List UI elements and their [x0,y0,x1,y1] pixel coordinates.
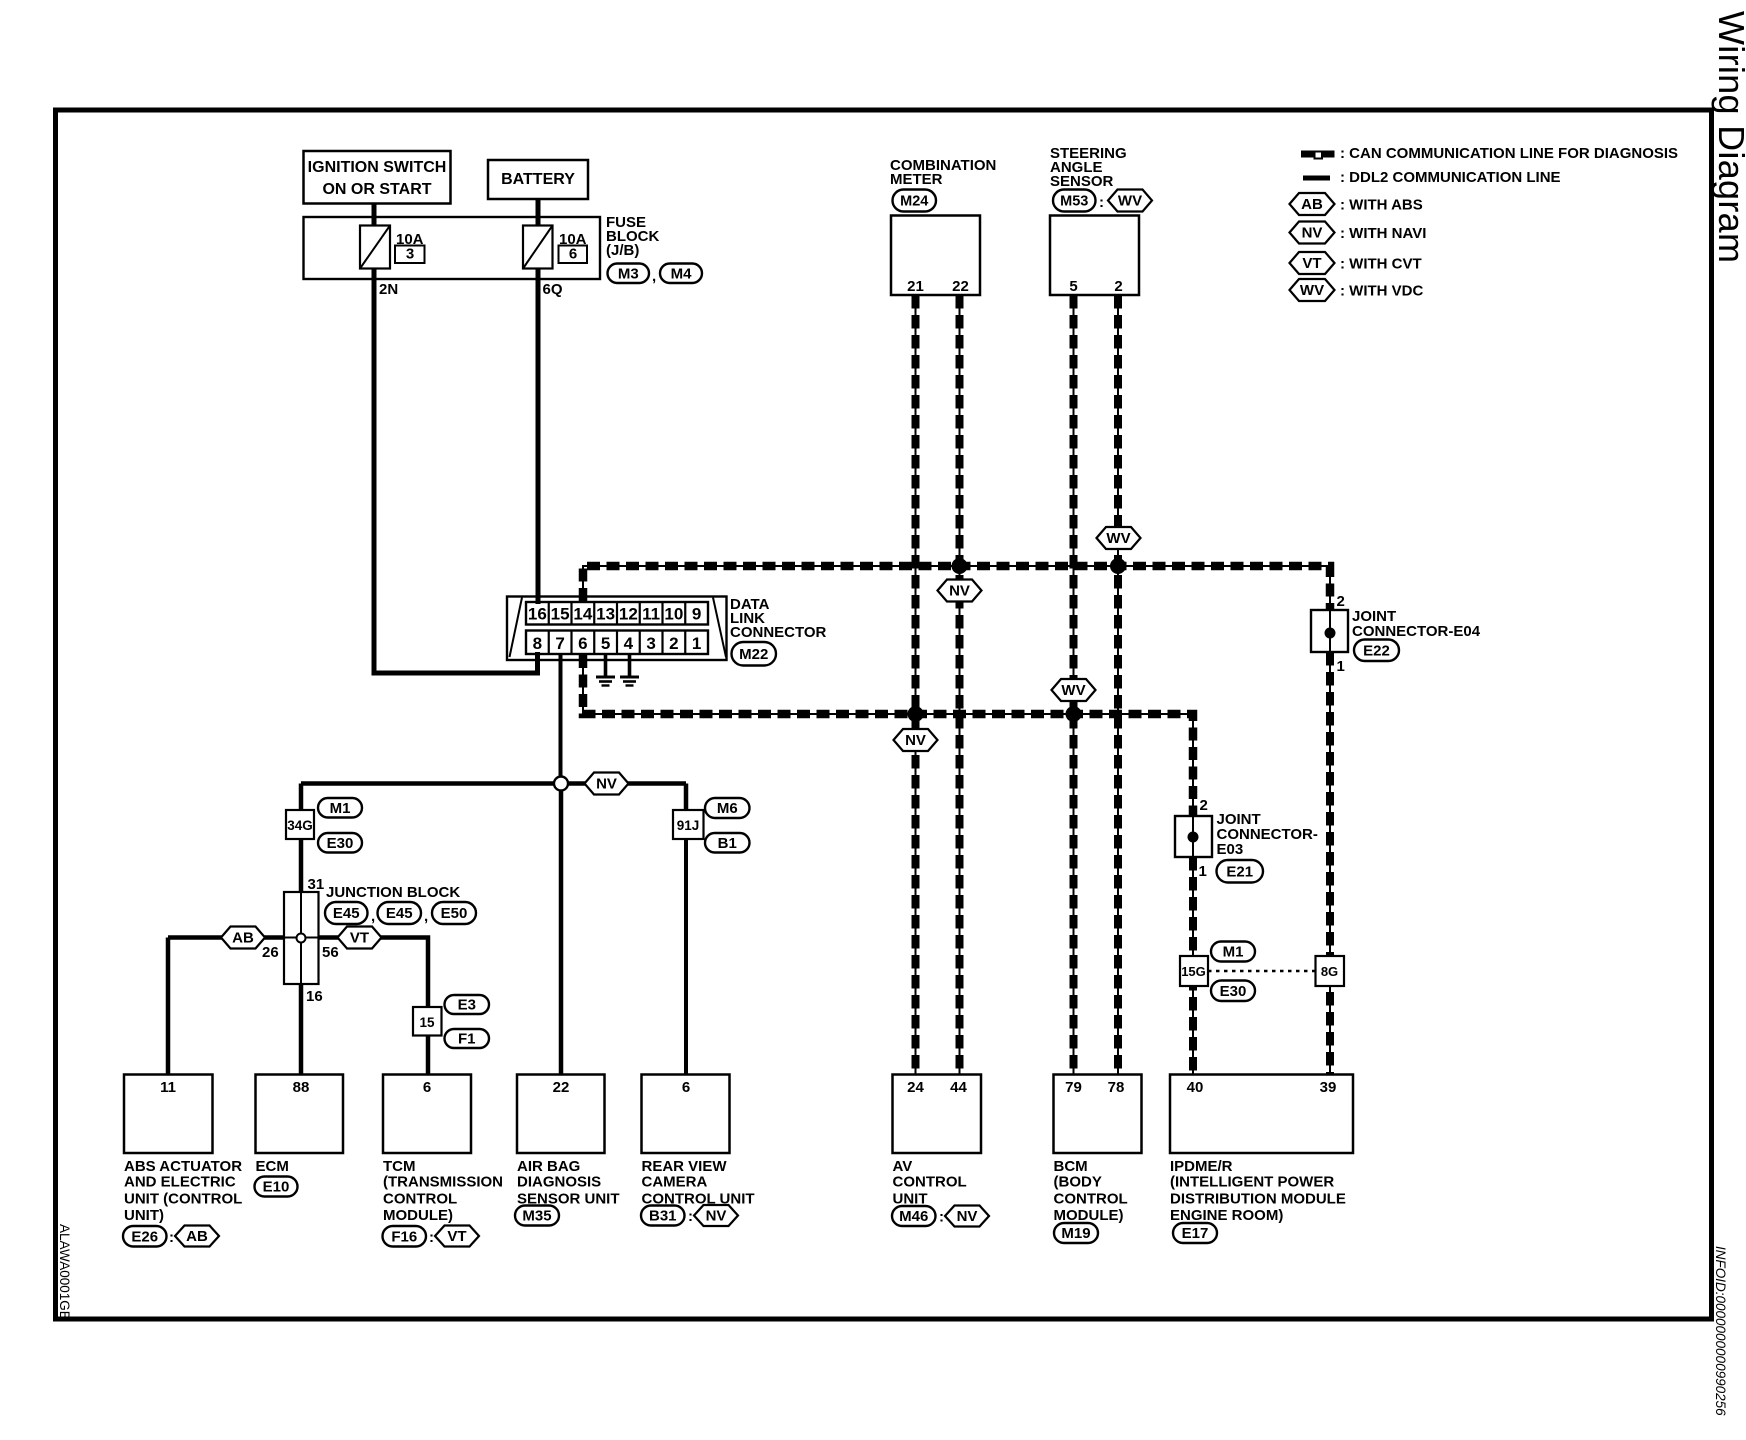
svg-text:WV: WV [1118,193,1142,210]
svg-text:31: 31 [308,876,325,893]
box ABS ACTUATOR [124,1075,213,1154]
svg-text:E45: E45 [333,905,360,922]
CAN wire E03 to 15G to IPDME pin40 [1192,857,1194,1074]
svg-text:CONTROL: CONTROL [1054,1190,1128,1207]
svg-text:40: 40 [1187,1079,1204,1096]
label pin 2 (E04) [1337,593,1345,610]
connector oval E26 [123,1226,167,1247]
wire ignition to fuse block [372,204,377,227]
connector oval E30 (15G) [1211,981,1255,1002]
value box 6 [559,246,588,264]
label ECM [256,1158,289,1175]
comma [652,268,656,285]
box 15G [1180,956,1208,986]
hexagon NV right of node [585,773,629,795]
hexagon VT [338,927,382,949]
pin 39 [1320,1079,1337,1096]
svg-text:M22: M22 [739,646,768,663]
CAN wire sensor pin5 to BCM pin79 [1073,295,1075,1074]
connector oval E50 [432,902,476,924]
svg-text:26: 26 [262,944,279,961]
connector oval M22 [732,642,777,666]
svg-text:WV: WV [1300,282,1324,299]
label IPDME/R [1170,1158,1346,1224]
pin 78 [1108,1079,1125,1096]
svg-text:E03: E03 [1217,841,1244,858]
box REAR VIEW CAMERA [642,1075,730,1154]
svg-text:2: 2 [1337,593,1345,610]
legend text WITH NAVI [1340,225,1426,242]
CAN wire E04 to 8G to IPDME pin39 [1329,652,1331,1074]
legend hexagon VT [1290,252,1335,274]
svg-text:: WITH ABS: : WITH ABS [1340,197,1423,214]
page border frame [56,110,1712,1319]
svg-text:44: 44 [950,1079,967,1096]
svg-text:ABS ACTUATOR: ABS ACTUATOR [124,1158,242,1175]
legend DDL2 symbol [1303,176,1330,181]
connector oval F16 [383,1226,427,1247]
connector oval E3 [445,995,490,1014]
svg-text:4: 4 [624,634,634,653]
junction block crossing line [284,937,319,939]
pin 22 [952,278,969,295]
svg-text:6: 6 [423,1079,431,1096]
svg-text:,: , [424,908,428,925]
svg-text:6Q: 6Q [543,281,563,298]
junction dot bus2 x1073 [1066,706,1082,722]
box 15 [413,1007,442,1036]
connector oval E45 b [378,902,422,924]
svg-text:MODULE): MODULE) [383,1207,453,1224]
ground DLC pin5 [596,654,615,686]
legend text WITH VDC [1340,283,1423,300]
box STEERING ANGLE SENSOR [1050,216,1139,296]
svg-text:M53: M53 [1060,194,1088,210]
box 91J [673,810,704,839]
DDL2 wire DLC pin7 down to node [559,654,563,784]
hexagon VT (TCM) [435,1226,479,1247]
svg-text:MODULE): MODULE) [1054,1207,1124,1224]
svg-text:16: 16 [306,988,323,1005]
wire left down to ABS pin11 [166,938,171,1075]
wire node right down 91J [684,784,689,811]
CAN wire sensor pin2 to BCM pin78 [1117,295,1119,1074]
connector oval E10 [255,1177,298,1197]
wire 91J to REAR VIEW pin6 [684,839,688,1074]
svg-text:(INTELLIGENT POWER: (INTELLIGENT POWER [1170,1174,1334,1191]
svg-text:JUNCTION BLOCK: JUNCTION BLOCK [326,884,460,901]
connector oval E21 [1217,860,1264,883]
svg-text:AND ELECTRIC: AND ELECTRIC [124,1174,236,1191]
wire AB branch left [168,935,284,940]
connector oval M35 [515,1206,559,1226]
svg-text:REAR VIEW: REAR VIEW [642,1158,728,1175]
connector oval M46 [892,1206,936,1226]
svg-text:13: 13 [596,605,615,624]
box ECM [256,1075,344,1154]
colon [1099,194,1104,211]
DATA LINK CONNECTOR M22 [507,597,727,661]
svg-text:: WITH CVT: : WITH CVT [1340,256,1422,273]
svg-text:Wiring Diagram: Wiring Diagram [1711,11,1746,263]
svg-text:E45: E45 [386,905,413,922]
DDL2 wire node down to AIR BAG pin22 [559,784,564,1075]
label TCM [383,1158,503,1224]
svg-text:M24: M24 [900,194,928,210]
svg-text:88: 88 [293,1079,310,1096]
svg-text:11: 11 [642,605,660,624]
label DATA LINK CONNECTOR [730,596,827,641]
svg-text:M1: M1 [330,800,351,817]
svg-text:3: 3 [646,634,655,653]
svg-text:F1: F1 [458,1031,476,1048]
CAN wire meter pin22 to AV pin44 [959,295,961,1074]
svg-text:(TRANSMISSION: (TRANSMISSION [383,1174,503,1191]
label 6Q [543,281,563,298]
legend text WITH CVT [1340,256,1422,273]
label AIR BAG DIAGNOSIS SENSOR UNIT [517,1158,620,1207]
svg-text:(BODY: (BODY [1054,1174,1102,1191]
svg-text:56: 56 [322,944,339,961]
junction dot bus1 x959 [952,558,968,574]
label JOINT CONNECTOR-E03 [1217,811,1318,858]
hexagon WV sensor [1108,190,1152,212]
svg-text:NV: NV [957,1208,978,1225]
svg-text:ECM: ECM [256,1158,289,1175]
svg-text::: : [1099,194,1104,211]
svg-text:,: , [652,268,656,285]
svg-text:VT: VT [350,930,369,947]
svg-text:12: 12 [619,605,638,624]
connector oval M6 [705,798,750,818]
svg-text::: : [939,1209,944,1226]
colon [169,1229,174,1246]
pin 22 airbag [553,1079,570,1096]
svg-text:79: 79 [1065,1079,1082,1096]
hexagon AB [221,927,265,949]
joint connector E03 box [1175,816,1212,857]
svg-text:6: 6 [578,634,587,653]
svg-text:5: 5 [601,634,610,653]
label 26 [262,944,279,961]
connector oval E17 [1173,1223,1217,1243]
colon [688,1208,693,1225]
pin 24 [907,1079,924,1096]
label 10A fuse 3 [396,231,424,248]
label JOINT CONNECTOR-E04 [1352,608,1481,640]
hexagon WV above bus1 [1097,527,1141,549]
legend CAN line symbol [1301,151,1335,159]
junction block node circle [297,934,306,943]
junction dot bus2 x915 [908,706,924,722]
svg-text:DIAGNOSIS: DIAGNOSIS [517,1174,601,1191]
svg-text:22: 22 [952,278,969,295]
box BCM [1054,1075,1142,1154]
svg-text:INFOID:0000000000990256: INFOID:0000000000990256 [1713,1246,1728,1416]
label BCM [1054,1158,1128,1224]
svg-text:2: 2 [669,634,678,653]
connector oval M19 [1054,1223,1098,1243]
svg-text:TCM: TCM [383,1158,416,1175]
fuse F1 10A #3 [360,226,390,269]
svg-text:CAMERA: CAMERA [642,1174,708,1191]
label JUNCTION BLOCK [326,884,460,901]
vertical code INFOID [1713,1246,1728,1416]
wire battery to fuse block [536,199,541,226]
label 31 [308,876,325,893]
box COMBINATION METER [891,216,980,296]
connector oval B31 [641,1206,685,1226]
connector oval M4 [660,264,702,284]
svg-text:E21: E21 [1226,863,1253,880]
svg-text:VT: VT [1302,255,1321,272]
pin 2 [1114,278,1122,295]
label STEERING ANGLE SENSOR [1050,145,1127,190]
svg-text:21: 21 [907,278,924,295]
svg-text:F16: F16 [391,1228,417,1245]
svg-text::: : [688,1208,693,1225]
wire 34G to junction block [299,839,304,892]
legend hexagon NV [1290,222,1335,244]
svg-text:1: 1 [1199,863,1207,880]
svg-text:NV: NV [596,776,617,793]
svg-text:91J: 91J [677,818,700,833]
connector oval M1 (15G) [1211,942,1255,962]
label pin 1 (E04) [1337,658,1345,675]
svg-text:NV: NV [949,583,970,600]
svg-text:AV: AV [893,1158,913,1175]
legend hexagon WV [1290,279,1335,301]
svg-text:CONTROL: CONTROL [383,1190,457,1207]
svg-text:1: 1 [692,634,701,653]
svg-text:M35: M35 [522,1208,551,1225]
svg-text:15: 15 [419,1015,435,1030]
CAN bus 2 (DLC pin6 - joint connector E03) [583,655,1193,815]
svg-text:E50: E50 [441,905,468,922]
joint connector E04 box [1311,610,1348,652]
connector oval F1 [445,1029,490,1048]
pin 88 [293,1079,310,1096]
legend hexagon AB [1290,193,1335,215]
legend text DDL2 [1340,169,1561,186]
pin 11 [160,1079,176,1096]
svg-text:: WITH NAVI: : WITH NAVI [1340,225,1426,242]
svg-text:78: 78 [1108,1079,1125,1096]
svg-text:,: , [371,908,375,925]
svg-text:E30: E30 [327,835,354,852]
svg-text:AB: AB [232,930,254,947]
svg-text:SENSOR: SENSOR [1050,173,1114,190]
box IPDM E/R [1170,1075,1353,1154]
svg-text:9: 9 [692,605,701,624]
svg-text:6: 6 [569,246,577,263]
svg-text:8: 8 [533,634,542,653]
hexagon AB (ABS) [175,1226,219,1247]
label REAR VIEW CAMERA CONTROL UNIT [642,1158,755,1207]
svg-text:NV: NV [1302,225,1323,242]
svg-text:E10: E10 [263,1179,290,1196]
svg-text:BCM: BCM [1054,1158,1088,1175]
ground DLC pin4 [620,654,639,686]
svg-text:22: 22 [553,1079,570,1096]
wire VT branch right [319,938,429,1008]
CAN bus 1 (DLC pin14 - joint connector E04) [583,566,1330,609]
svg-text:M3: M3 [618,265,639,282]
connector oval M53 [1053,190,1096,212]
svg-text:3: 3 [406,246,414,263]
box AV CONTROL UNIT [893,1075,982,1154]
legend text CAN [1340,145,1678,162]
svg-text:M46: M46 [899,1208,928,1225]
label 56 [322,944,339,961]
svg-text:ENGINE ROOM): ENGINE ROOM) [1170,1207,1283,1224]
junction dot bus1 x1118 [1110,558,1126,574]
svg-text:AIR BAG: AIR BAG [517,1158,580,1175]
svg-text:(J/B): (J/B) [606,242,639,259]
CAN wire meter pin21 to AV pin24 [915,295,917,1074]
DDL2 wire down to 34G [299,784,304,811]
colon [429,1229,434,1246]
node open circle [554,777,568,791]
svg-text:10: 10 [664,605,683,624]
svg-text:6: 6 [682,1079,690,1096]
svg-text:16: 16 [528,605,547,624]
hexagon NV (rearview) [694,1205,738,1226]
svg-text:: DDL2 COMMUNICATION LINE: : DDL2 COMMUNICATION LINE [1340,169,1561,186]
svg-text:CONNECTOR: CONNECTOR [730,624,827,641]
box 34G [286,810,314,839]
box BATTERY [488,160,588,199]
svg-text:11: 11 [160,1079,176,1096]
DDL2 horizontal left branch [301,781,561,786]
svg-text:M19: M19 [1061,1225,1090,1242]
svg-text:34G: 34G [287,818,313,833]
wire 15 to TCM pin6 [426,1036,431,1075]
legend text WITH ABS [1340,197,1423,214]
svg-text:2: 2 [1114,278,1122,295]
label 10A fuse 6 [559,231,587,248]
connector oval M24 [893,190,937,212]
hexagon NV below bus2 [894,729,938,751]
comma [371,908,375,925]
svg-text:24: 24 [907,1079,924,1096]
pin 6 rearview [682,1079,690,1096]
box TCM [383,1075,471,1154]
pin 6 TCM [423,1079,431,1096]
svg-text:5: 5 [1069,278,1077,295]
svg-text:15G: 15G [1181,964,1206,979]
svg-text:M6: M6 [717,800,738,817]
svg-text:AB: AB [1301,196,1323,213]
DDL2 horizontal right branch [561,781,686,786]
svg-text:IGNITION SWITCH: IGNITION SWITCH [308,159,447,176]
wire 2N ignition feed to DLC pin 8 [374,269,538,674]
svg-text:E30: E30 [1220,983,1247,1000]
wire 6Q battery feed to DLC pin 16 [536,269,541,605]
hexagon WV above bus2 [1052,679,1096,701]
svg-text:E17: E17 [1182,1225,1209,1242]
svg-text:AB: AB [186,1228,208,1245]
label pin 1 (E03) [1199,863,1207,880]
label FUSE BLOCK (J/B) [606,214,659,259]
box IGNITION SWITCH ON OR START [304,151,451,204]
connector oval B1 [705,833,750,853]
svg-text:IPDME/R: IPDME/R [1170,1158,1233,1175]
svg-text:VT: VT [447,1228,466,1245]
pin 5 [1069,278,1077,295]
hexagon NV (AV) [945,1206,989,1227]
colon [939,1209,944,1226]
connector oval E22 [1354,640,1399,662]
svg-text:: CAN COMMUNICATION LINE FOR D: : CAN COMMUNICATION LINE FOR DIAGNOSIS [1340,145,1678,162]
vertical title Wiring Diagram [1711,11,1746,263]
label AV CONTROL UNIT [893,1158,967,1207]
svg-text:1: 1 [1337,658,1345,675]
label pin 2 (E03) [1200,797,1208,814]
svg-text:15: 15 [551,605,570,624]
svg-text:WV: WV [1106,530,1130,547]
svg-text:39: 39 [1320,1079,1337,1096]
svg-text:NV: NV [905,732,926,749]
svg-text:WV: WV [1061,682,1085,699]
label COMBINATION METER [890,157,996,188]
connector oval E30 (34G) [318,833,362,853]
fuse F2 10A #6 [523,226,553,269]
svg-text:UNIT): UNIT) [124,1207,164,1224]
svg-text:8G: 8G [1321,964,1338,979]
svg-text:METER: METER [890,171,943,188]
box AIR BAG [517,1075,605,1154]
comma [424,908,428,925]
svg-text:B31: B31 [649,1208,677,1225]
svg-text:BATTERY: BATTERY [501,171,575,188]
svg-text:CONTROL: CONTROL [893,1174,967,1191]
svg-text:B1: B1 [718,835,737,852]
vertical code ALAWA0001GB [57,1224,72,1320]
label 16 [306,988,323,1005]
svg-text::: : [429,1229,434,1246]
box 8G [1316,956,1345,986]
value box 3 [395,246,425,264]
pin 40 [1187,1079,1204,1096]
svg-text:ON OR START: ON OR START [322,181,431,198]
svg-text::: : [169,1229,174,1246]
dotted link 15G to 8G [1208,970,1316,972]
svg-text:CONNECTOR-E04: CONNECTOR-E04 [1352,623,1481,640]
pin 44 [950,1079,967,1096]
svg-text:14: 14 [573,605,592,624]
svg-text:7: 7 [555,634,564,653]
pin 21 [907,278,924,295]
svg-text:M4: M4 [671,265,692,282]
label 2N [379,281,398,298]
svg-text:E26: E26 [131,1228,158,1245]
svg-text:M1: M1 [1223,944,1244,961]
svg-text:ALAWA0001GB: ALAWA0001GB [57,1224,72,1320]
fuse block rect [304,217,601,279]
svg-text:E3: E3 [458,997,476,1014]
svg-text:: WITH VDC: : WITH VDC [1340,283,1423,300]
svg-text:E22: E22 [1363,642,1390,659]
svg-text:UNIT (CONTROL: UNIT (CONTROL [124,1190,242,1207]
svg-text:DISTRIBUTION MODULE: DISTRIBUTION MODULE [1170,1190,1346,1207]
wire junction block to ECM pin88 [299,984,304,1074]
svg-text:2: 2 [1200,797,1208,814]
connector oval E45 a [325,902,368,924]
pin 79 [1065,1079,1082,1096]
hexagon NV below bus1 [938,580,982,602]
svg-text:2N: 2N [379,281,398,298]
